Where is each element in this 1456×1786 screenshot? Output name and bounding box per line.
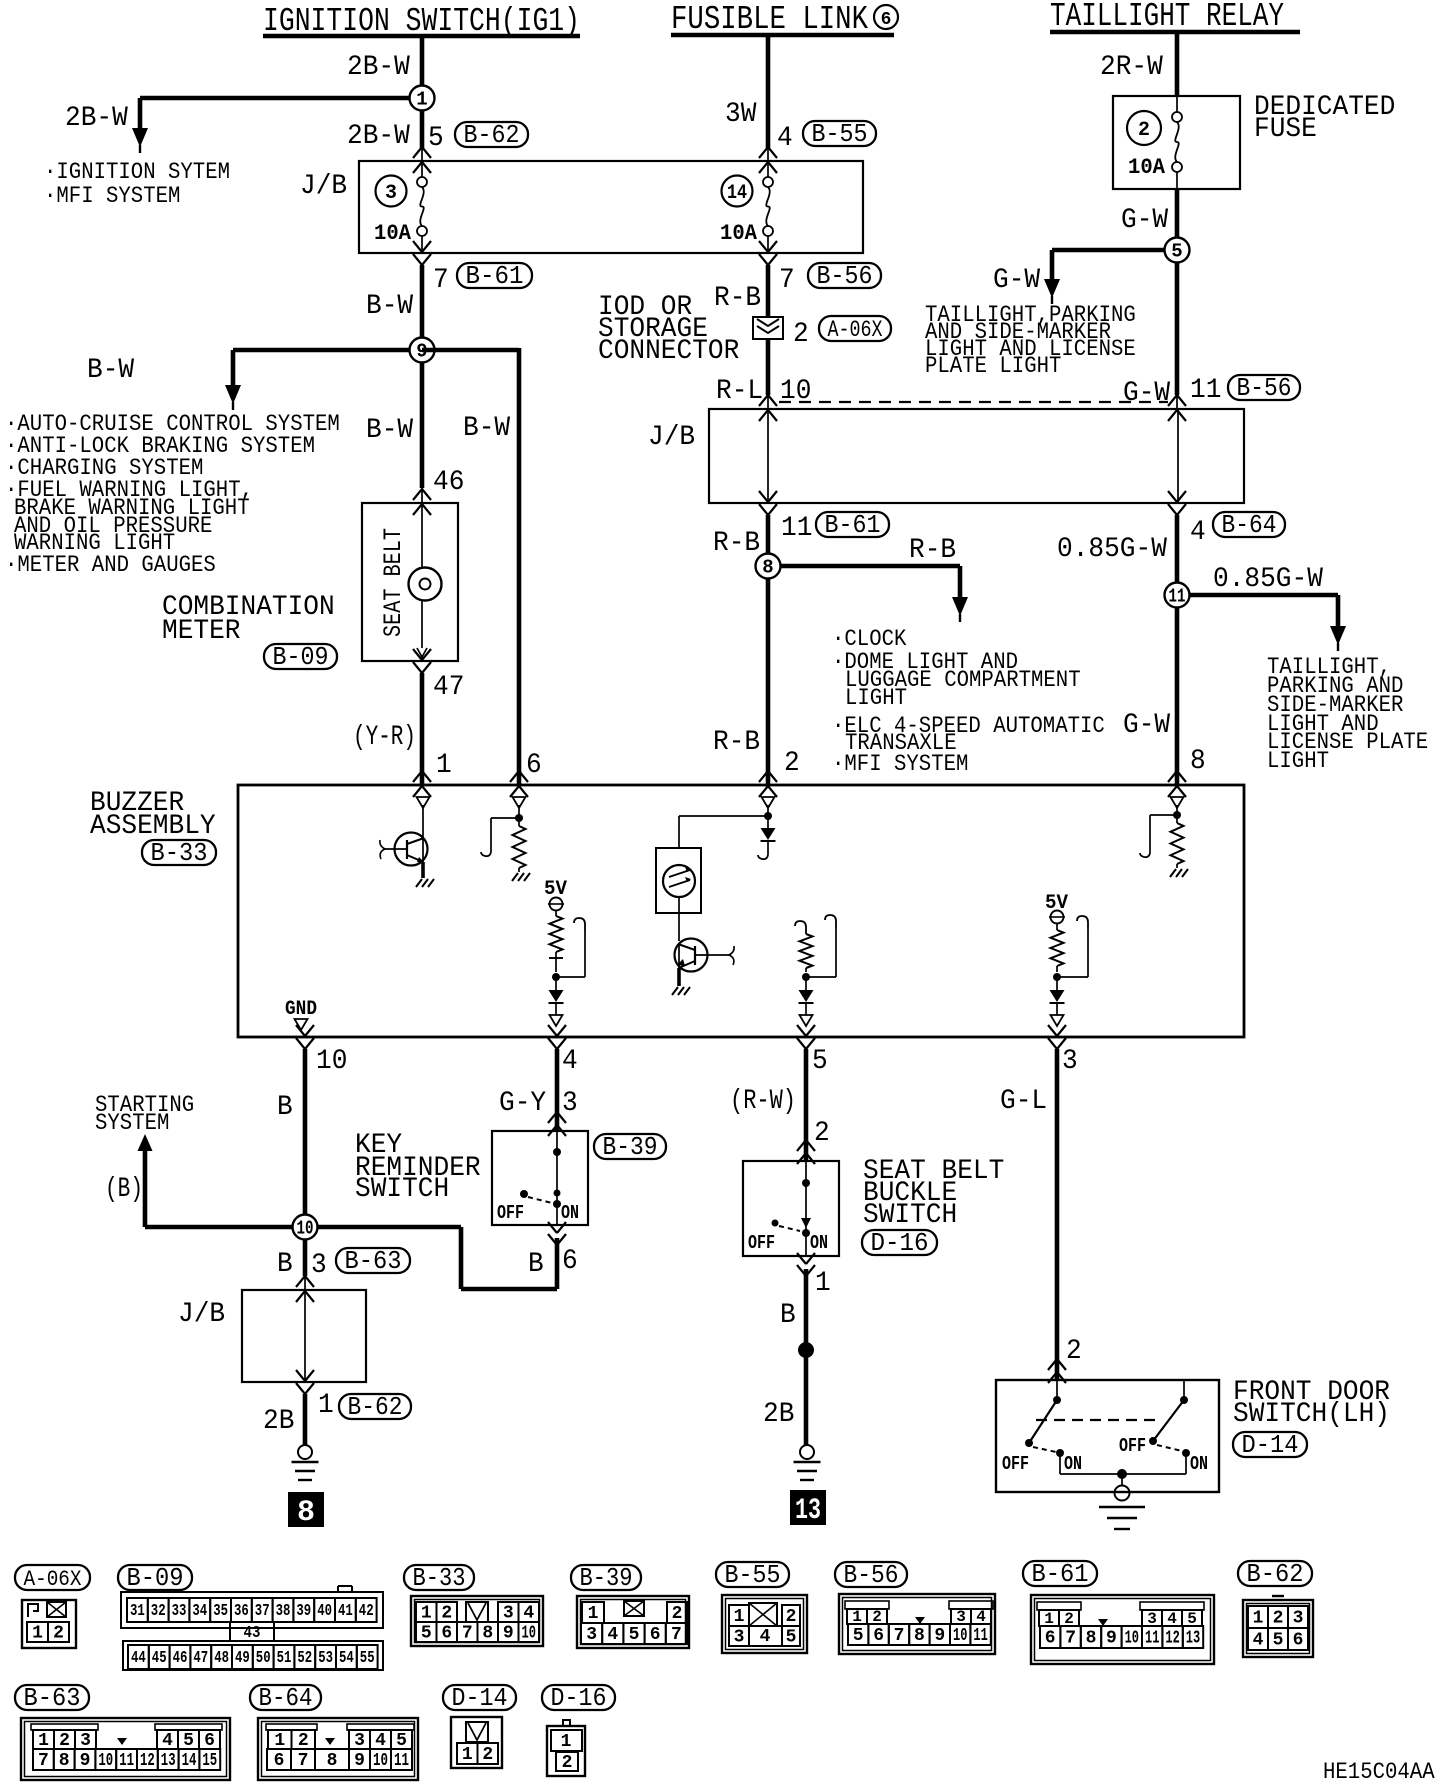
connector A-06X pinout [22,1600,76,1648]
svg-text:2B-W: 2B-W [347,52,410,83]
connector feet at buzzer pin 2 [759,771,777,797]
label J/B [178,1299,225,1330]
svg-text:B-33: B-33 [151,838,208,868]
junction block J/B (bottom left) [242,1290,366,1382]
label ON (door right) [1190,1453,1208,1475]
svg-text:41: 41 [338,1602,353,1621]
svg-text:(R-W): (R-W) [730,1086,796,1117]
svg-text:G-W: G-W [1121,205,1168,236]
svg-text:2: 2 [441,1604,452,1624]
connector feet at buzzer pin 5 [797,1025,815,1049]
svg-text:6: 6 [881,10,892,30]
power source header IGNITION SWITCH(IG1) [263,3,580,40]
junction R2/diode [552,973,560,981]
svg-text:7: 7 [298,1751,309,1771]
wire meter to transistor Q2 [678,913,680,941]
connector feet at key reminder switch pin 6 [548,1222,566,1245]
connector B-39 pinout [577,1596,689,1648]
connector feet at buzzer pin 6 [510,771,528,797]
connector label A-06X (pinout) [15,1565,90,1592]
label 10A (fuse 3) [374,221,412,246]
svg-text:36: 36 [234,1602,249,1621]
label G-L [1000,1086,1047,1117]
svg-text:3: 3 [385,182,397,205]
svg-text:31: 31 [130,1602,145,1621]
pin 3 of buzzer assembly [1062,1046,1078,1077]
connector D-16 pinout [547,1720,585,1776]
svg-text:10: 10 [522,1624,537,1644]
pin 3 of connector B-63 [311,1250,327,1281]
connector B-62 pinout [1243,1596,1313,1657]
fuse 3 symbol 10A [417,161,427,253]
connector label B-09 [264,642,337,672]
connector feet at combination meter pin 47 [413,649,431,673]
wire 0.85G-W J/B2 to node 11 [1175,515,1180,595]
label 2B [263,1406,294,1437]
resistor R3 top squiggle [795,921,806,934]
connector feet at buzzer pin 4 [548,1025,566,1049]
label 2B (buckle ground) [763,1399,794,1430]
svg-text:R-L: R-L [716,376,763,407]
label 2B-W [347,121,410,152]
label OFF (buckle) [748,1232,775,1254]
wire R-B J/B to IOD connector [766,265,771,317]
wire branch 2B-W to ignition system (left arrow) [140,98,422,130]
diode D1 [549,977,564,1003]
svg-text:(Y-R): (Y-R) [353,722,416,753]
svg-text:B-W: B-W [366,415,413,446]
wire R-B J/B2 to node 8 [766,515,771,566]
svg-text:6: 6 [1045,1629,1056,1649]
svg-text:5: 5 [421,1624,432,1644]
svg-text:R-B: R-B [714,283,761,314]
svg-text:12: 12 [140,1751,155,1771]
svg-text:SWITCH: SWITCH [355,1174,449,1205]
pin 10 of connector B-56 [780,376,811,407]
wire 2B-W node 1 to J/B pin 5 [420,110,425,161]
ground reference badge 13 [791,1491,825,1528]
arrow to clock etc [952,597,968,622]
comparator tap wire (pin 4) [556,918,585,977]
connector feet at front door switch pin 2 [1048,1359,1066,1383]
wire G-Y buzzer pin 4 to key reminder switch [555,1049,560,1131]
svg-text:1: 1 [436,750,452,781]
label G-W [1121,205,1168,236]
svg-text:34: 34 [192,1602,207,1621]
svg-text:7: 7 [433,265,449,296]
svg-text:4: 4 [760,1627,771,1647]
svg-text:B-09: B-09 [127,1563,184,1593]
pin 8 of buzzer assembly [1190,746,1206,777]
connector label B-63 (pinout) [15,1683,89,1713]
label IOD OR STORAGE CONNECTOR [598,292,739,367]
svg-text:2: 2 [672,1604,683,1624]
svg-text:46: 46 [433,467,464,498]
svg-text:6: 6 [441,1624,452,1644]
svg-text:7: 7 [38,1751,49,1771]
svg-text:8: 8 [482,1624,493,1644]
connector label B-33 [142,838,216,868]
svg-text:2: 2 [1066,1336,1082,1367]
svg-text:50: 50 [256,1649,271,1668]
junction pin 6 [515,814,523,822]
connector feet at J/B top (pin 4) [759,147,777,173]
connector label B-61 (pinout) [1023,1559,1097,1589]
svg-text:53: 53 [318,1649,333,1668]
junction R3/diode [802,973,810,981]
wire R-B node 8 to buzzer pin 2 [766,578,771,785]
svg-text:G-W: G-W [1123,710,1170,741]
pin 2 of seat belt buckle switch [814,1118,830,1149]
label R-B (lower) [713,727,760,758]
svg-text:3: 3 [1293,1609,1304,1629]
svg-text:52: 52 [297,1649,312,1668]
wire G-W fuse to node 5 [1175,189,1180,250]
svg-text:2B-W: 2B-W [347,121,410,152]
label G-Y [499,1088,546,1119]
svg-text:13: 13 [161,1751,176,1771]
svg-text:B-W: B-W [463,413,510,444]
wire R5 to ground [1176,864,1178,868]
wire pin 1 to transistor Q1 [422,805,424,840]
wire G-W node 5 to J/B2 pin 11 [1175,262,1180,409]
svg-text:B-09: B-09 [273,642,329,672]
svg-text:FUSE: FUSE [1254,114,1317,145]
arrow to taillight/license plate lights [1330,626,1346,651]
svg-text:METER: METER [162,616,241,647]
svg-text:B-62: B-62 [464,120,520,150]
wire pin 8 to resistor R5 [1176,805,1178,823]
svg-text:J/B: J/B [648,422,695,453]
svg-text:11: 11 [1145,1629,1160,1649]
svg-text:1: 1 [588,1604,599,1624]
svg-text:14: 14 [727,182,747,205]
pin 1 of seat belt buckle switch [815,1268,831,1299]
connector B-56 pinout [839,1594,995,1654]
svg-text:40: 40 [317,1602,332,1621]
svg-text:4: 4 [607,1625,618,1645]
svg-text:11: 11 [1169,586,1186,608]
svg-text:GND: GND [285,998,317,1021]
combination meter box [362,503,458,661]
svg-text:32: 32 [151,1602,166,1621]
connector B-55 pinout [722,1595,807,1653]
pin 46 of combination meter [433,467,464,498]
wire (B) starting system to node 10 [145,1151,305,1227]
svg-text:2: 2 [53,1624,64,1644]
svg-text:6: 6 [1293,1631,1304,1651]
junction pin 8 [1173,811,1181,819]
connector B-61 pinout [1031,1595,1214,1664]
fuse 2 symbol 10A [1172,96,1182,189]
arrow to auto-cruise etc [225,385,241,410]
svg-text:3: 3 [1062,1046,1078,1077]
svg-text:J/B: J/B [300,171,347,202]
svg-text:ON: ON [1190,1453,1208,1475]
svg-text:0.85G-W: 0.85G-W [1057,534,1167,565]
svg-text:10: 10 [373,1751,388,1771]
svg-text:B-63: B-63 [345,1246,402,1276]
wire G-L buzzer pin 3 to front door switch [1055,1049,1060,1380]
comparator tap wire (pin 8) [1140,815,1177,857]
wire (R-W) buzzer pin 5 to buckle switch [804,1049,809,1161]
svg-text:G-L: G-L [1000,1086,1047,1117]
label B-W (left of seat belt lamp wire) [366,415,413,446]
svg-text:LIGHT: LIGHT [845,685,907,711]
svg-text:48: 48 [214,1649,229,1668]
wire B key reminder switch pin 6 down [555,1238,560,1289]
label 0.85G-W (above node 11) [1057,534,1167,565]
svg-text:CONNECTOR: CONNECTOR [598,336,739,367]
label B (buckle) [780,1300,796,1331]
svg-text:12: 12 [1165,1629,1179,1649]
svg-text:8: 8 [327,1751,338,1771]
svg-text:7: 7 [671,1625,682,1645]
label OFF (door right) [1119,1435,1146,1457]
label G-W (above J/B2) [1123,378,1170,409]
svg-text:2: 2 [786,1607,797,1627]
label B-W (right drop) [463,413,510,444]
seat belt warning lamp [409,503,442,661]
connector feet at J/B2 bottom (pin 11 B-61) [759,491,777,515]
label G-W (branch) [993,265,1040,296]
svg-text:2: 2 [784,748,800,779]
wire pin 2 junction [764,805,772,828]
svg-text:8: 8 [297,1496,315,1530]
wire through J/B3 [304,1290,306,1382]
svg-text:B-61: B-61 [466,261,524,291]
label OFF (key reminder) [497,1202,524,1224]
terminal triangle pin 6 [513,797,526,808]
svg-text:1: 1 [561,1732,572,1752]
svg-text:ON: ON [810,1232,828,1254]
pin 11 of connector B-61 [781,513,812,544]
wire B buckle switch to ground [804,1269,809,1445]
svg-text:OFF: OFF [497,1202,524,1224]
svg-text:2B-W: 2B-W [65,103,128,134]
svg-text:G-W: G-W [1123,378,1170,409]
svg-text:SEAT BELT: SEAT BELT [379,528,408,637]
connector feet at J/B2 top (pin 10) [759,395,777,421]
svg-text:4: 4 [523,1604,534,1624]
svg-text:B-55: B-55 [725,1560,781,1590]
svg-text:47: 47 [193,1649,208,1668]
arrow to starting system [138,1134,153,1151]
svg-text:6: 6 [873,1626,884,1646]
terminal triangle pin 2 [762,797,775,808]
svg-text:13: 13 [1186,1629,1200,1649]
svg-text:8: 8 [59,1751,70,1771]
svg-text:HE15C04AA: HE15C04AA [1323,1759,1435,1785]
svg-text:FUSIBLE LINK: FUSIBLE LINK [671,1,868,38]
connector label B-39 [594,1132,666,1162]
connector feet at J/B3 top (pin 3) [296,1276,314,1302]
svg-text:6: 6 [526,750,542,781]
buzzer coil/meter symbol [656,848,701,913]
svg-text:ON: ON [561,1202,579,1224]
connector B-63 pinout [21,1718,230,1780]
svg-text:8: 8 [1086,1629,1097,1649]
svg-text:·MFI SYSTEM: ·MFI SYSTEM [44,183,180,209]
connector label B-09 (pinout) [118,1563,192,1593]
dedicated fuse box [1113,96,1240,189]
wire node 10 to J/B [303,1239,308,1290]
svg-text:15: 15 [202,1751,217,1771]
diode D3 [799,977,814,1003]
svg-text:B: B [277,1249,293,1280]
arrow to taillight/parking lights [1044,279,1060,304]
svg-text:B: B [277,1092,293,1123]
svg-text:42: 42 [359,1602,374,1621]
resistor R1 [513,826,526,868]
wire through J/B (G-W path) [1177,409,1179,503]
svg-text:A-06X: A-06X [828,317,883,343]
svg-text:7: 7 [462,1624,473,1644]
wire node 10 to key reminder switch pin 6 wire [305,1227,557,1289]
svg-text:A-06X: A-06X [24,1567,82,1592]
connector label B-61 [816,510,889,540]
label G-W (lower) [1123,710,1170,741]
label ON (door left) [1064,1453,1082,1475]
svg-text:·METER AND GAUGES: ·METER AND GAUGES [5,552,216,578]
svg-text:B-62: B-62 [1247,1559,1304,1589]
pin 7 of connector B-56 [779,265,795,296]
wire Q1 emitter to ground [421,862,425,878]
svg-text:10: 10 [1125,1629,1139,1649]
svg-text:37: 37 [255,1602,270,1621]
svg-text:B-64: B-64 [1222,510,1277,540]
connector label B-62 [455,120,528,150]
svg-text:3: 3 [503,1604,514,1624]
svg-text:8: 8 [1190,746,1206,777]
label B-W [366,291,413,322]
ground (buzzer internal, Q1) [416,879,434,887]
pin 5 of connector B-62 [428,123,444,154]
svg-text:14: 14 [182,1751,197,1771]
label R-B (branch) [909,535,956,566]
svg-text:10A: 10A [720,221,758,246]
diode D2 [758,828,776,859]
svg-text:5: 5 [1171,241,1182,263]
svg-text:B: B [528,1249,544,1280]
wire B-W node 9 to combination meter pin 46 [420,362,425,503]
svg-text:B: B [780,1300,796,1331]
wire 3W fusible link to J/B pin 4 [766,35,771,161]
connector B-09 pinout [121,1586,383,1670]
svg-text:44: 44 [131,1649,146,1668]
connector D-14 pinout [451,1717,502,1768]
resistor R4 [1051,923,1064,972]
connector feet at buckle switch pin 2 [797,1140,815,1164]
front door switch box [996,1380,1219,1492]
svg-text:10: 10 [98,1751,113,1771]
wire B-W branch right to pin 6 drop [422,348,519,785]
svg-text:4: 4 [777,123,793,154]
svg-text:9: 9 [354,1751,365,1771]
diode D4 [1050,977,1065,1003]
label SEAT BELT BUCKLE SWITCH [863,1156,1004,1231]
ground reference badge 8 [289,1493,323,1530]
destination list clock / dome light etc [832,626,1105,777]
connector label B-55 (pinout) [716,1560,789,1590]
svg-text:3: 3 [562,1088,578,1119]
ground (front door switch) [1099,1486,1145,1530]
destination list taillight parking side-marker license plate [1267,654,1428,774]
ground (buzzer internal, R5) [1170,869,1188,877]
IOD connector A-06X symbol [753,317,783,339]
key reminder switch box [492,1131,588,1225]
connector feet at J/B bottom (pin 7 B-56) [759,241,777,265]
svg-text:6: 6 [274,1751,285,1771]
svg-text:R-B: R-B [909,535,956,566]
svg-text:2B: 2B [763,1399,794,1430]
buzzer assembly box B-33 [238,785,1244,1037]
svg-text:4: 4 [1253,1631,1264,1651]
pin 6 of key reminder switch [562,1246,578,1277]
svg-text:5: 5 [629,1625,640,1645]
terminal triangle above pin 3 [1051,1003,1064,1026]
connector feet at key reminder switch pin 3 [548,1112,566,1136]
pin 2 of connector A-06X [793,319,809,350]
label OFF (door left) [1002,1453,1029,1475]
pin 7 of connector B-61 [433,265,449,296]
svg-text:1: 1 [1253,1609,1264,1629]
svg-text:B-55: B-55 [812,119,868,149]
svg-text:13: 13 [795,1494,821,1528]
svg-text:R-B: R-B [713,727,760,758]
svg-text:B-61: B-61 [1032,1559,1089,1589]
connector B-33 pinout [411,1596,543,1646]
junction block J/B (top) [359,161,863,253]
svg-text:5: 5 [786,1628,797,1648]
label J/B [648,422,695,453]
svg-text:B-61: B-61 [825,510,881,540]
transistor Q1 [380,833,428,866]
connector B-64 pinout [258,1718,418,1780]
label 2B-W (branch) [65,103,128,134]
svg-text:3: 3 [734,1628,745,1648]
svg-text:SWITCH(LH): SWITCH(LH) [1233,1399,1390,1430]
comparator tap wire (pin 6) [481,818,519,856]
wire branch R-B to clock etc (right arrow) [768,566,960,599]
front door switch right contact [1149,1380,1190,1474]
power source header TAILLIGHT RELAY [1050,0,1300,35]
dashed mechanical link (door switch) [1036,1419,1161,1421]
GND terminal triangle [295,1019,308,1030]
terminal triangle pin 1 [417,797,430,808]
connector label D-16 [862,1228,937,1258]
power source header FUSIBLE LINK 6 [671,1,898,38]
pin 2 of buzzer assembly [784,748,800,779]
svg-text:B-W: B-W [87,355,134,386]
connector feet at buzzer pin 1 [413,771,431,797]
wire R1 to ground [518,868,520,872]
label 0.85G-W (branch) [1213,564,1323,595]
wire G-W node 11 to buzzer pin 8 [1175,607,1180,785]
node 10 [293,1215,318,1240]
connector label B-64 (pinout) [250,1683,321,1713]
svg-text:SYSTEM: SYSTEM [95,1110,169,1136]
connector label B-55 [803,119,876,149]
connector feet at combination meter pin 46 [413,489,431,515]
svg-text:PLATE LIGHT: PLATE LIGHT [925,353,1061,379]
svg-text:33: 33 [172,1602,187,1621]
svg-text:5: 5 [812,1046,828,1077]
connector label B-63 [336,1246,410,1276]
connector feet at buzzer pin 3 [1048,1025,1066,1049]
svg-text:49: 49 [235,1649,250,1668]
comparator tap wire (pin 3) [1057,916,1088,977]
